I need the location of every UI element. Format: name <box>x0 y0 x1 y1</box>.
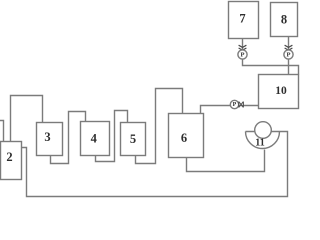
svg-text:4: 4 <box>91 132 98 146</box>
pump P1 circle <box>238 50 247 59</box>
box 8 <box>271 3 298 37</box>
wire box3 bottom to box4 top <box>51 112 86 164</box>
pump P2 circle <box>284 50 293 59</box>
wire fan right around bottom back to box2 <box>22 132 288 197</box>
wire box5 bottom to box6 top <box>136 89 183 164</box>
wire box8 bottom to pump P2 <box>288 37 290 51</box>
wire box2 top to box3 top <box>11 96 43 142</box>
svg-text:5: 5 <box>130 132 136 146</box>
svg-text:8: 8 <box>281 13 287 27</box>
box 10 <box>259 75 299 109</box>
box 5 <box>121 123 146 156</box>
fan 11 volute (semicircle) <box>246 132 280 149</box>
box 7 <box>229 2 259 39</box>
pressure gauge P3 circle <box>230 100 238 108</box>
wire pump P1 outlet to box10 top right <box>243 60 299 75</box>
svg-text:P: P <box>233 102 237 108</box>
box 6 <box>169 114 204 158</box>
arrow into pump P1 <box>239 45 247 50</box>
svg-text:6: 6 <box>181 131 187 145</box>
wire pump P2 outlet into box10 top <box>288 60 290 75</box>
wire from unit 1 (off-image) into box 2 top <box>0 121 4 142</box>
wire box7 bottom to pump P1 <box>242 39 244 51</box>
wire box4 bottom to box5 top <box>96 111 128 162</box>
wire box6 bottom to fan bottom <box>187 150 265 172</box>
box 3 <box>37 123 63 156</box>
wire box10 left side to box6 top (through gauge and valve) <box>201 106 259 114</box>
svg-text:7: 7 <box>239 12 245 26</box>
box 4 <box>81 122 110 156</box>
box 2 <box>1 142 22 180</box>
svg-text:2: 2 <box>6 150 12 164</box>
valve on wire to box6 <box>239 102 244 108</box>
svg-text:11: 11 <box>255 138 264 149</box>
svg-text:3: 3 <box>44 130 50 144</box>
svg-text:P: P <box>287 52 291 59</box>
arrow into pump P2 <box>285 45 293 50</box>
svg-text:10: 10 <box>275 85 287 97</box>
fan 11 impeller circle <box>255 122 272 139</box>
svg-text:P: P <box>241 52 245 59</box>
